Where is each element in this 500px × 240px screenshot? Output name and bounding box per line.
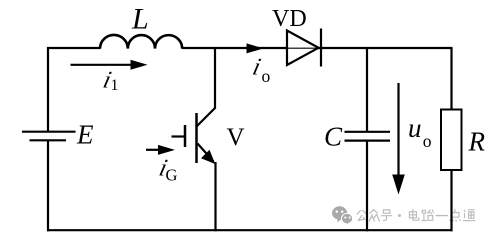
wire: left vertical upper (source to top rail) (47, 47, 49, 132)
wire: left vertical lower (source to bottom rail) (47, 141, 49, 232)
IGBT V: body bar (195, 113, 198, 163)
IGBT V: collector diagonal (197, 108, 216, 127)
watermark wechat icon: big bubble (332, 206, 347, 222)
output voltage arrow uo head (392, 175, 405, 195)
wire: top rail left segment (47, 47, 101, 49)
capacitor C: bottom plate (345, 140, 391, 142)
wire: top rail from inductor to right corner (182, 47, 453, 49)
watermark text: 号 (382, 210, 392, 221)
watermark text: 电 (409, 209, 418, 220)
wire: switch branch emitter vertical to bottom rail (214, 162, 216, 231)
svg-text:V: V (227, 124, 245, 151)
watermark text: 点 (450, 209, 460, 221)
svg-text:C: C (324, 122, 343, 152)
output voltage arrow uo shaft (397, 83, 399, 180)
svg-text:R: R (468, 127, 486, 157)
battery E: long top plate (22, 131, 76, 133)
IGBT V: gate bar (184, 125, 187, 147)
svg-text:u: u (408, 113, 422, 143)
wire: capacitor branch lower (366, 141, 368, 232)
watermark text: 公 (357, 210, 366, 220)
current arrow io head (on top rail) (247, 43, 264, 53)
gate current arrow iG head (158, 145, 175, 155)
wire: switch branch collector vertical (214, 48, 216, 109)
current arrow i1 head (131, 60, 148, 70)
diode VD: cathode bar (320, 29, 322, 67)
svg-text:E: E (76, 120, 94, 150)
watermark text: interpunct (398, 214, 401, 217)
watermark text: 一 (436, 215, 447, 217)
wire: right branch upper (450, 48, 452, 110)
svg-text:G: G (166, 166, 178, 185)
IGBT V: gate lead (172, 135, 185, 137)
capacitor C: top plate (345, 131, 391, 133)
current arrow i1 shaft (71, 64, 137, 66)
svg-text:VD: VD (272, 6, 307, 32)
diode VD: anode triangle (287, 31, 319, 66)
watermark wechat icon: small bubble (341, 213, 352, 225)
svg-text:o: o (262, 66, 271, 86)
svg-text:L: L (131, 3, 149, 36)
wire: capacitor branch upper (366, 48, 368, 132)
svg-text:1: 1 (111, 77, 119, 94)
battery E: short bottom plate (30, 139, 67, 141)
IGBT V: emitter arrowhead (201, 150, 215, 164)
wire: bottom rail (47, 229, 453, 231)
svg-text:o: o (423, 131, 432, 151)
inductor L: three humps (100, 35, 182, 49)
resistor R body (441, 110, 462, 171)
gate current arrow iG shaft (146, 149, 162, 151)
watermark text: 众 (369, 210, 379, 222)
wire: thin lead through diode (288, 47, 318, 49)
IGBT V: emitter diagonal (198, 144, 214, 162)
watermark text: 通 (463, 210, 475, 221)
wire: right branch lower (450, 170, 452, 231)
watermark text: 路 (422, 210, 434, 221)
